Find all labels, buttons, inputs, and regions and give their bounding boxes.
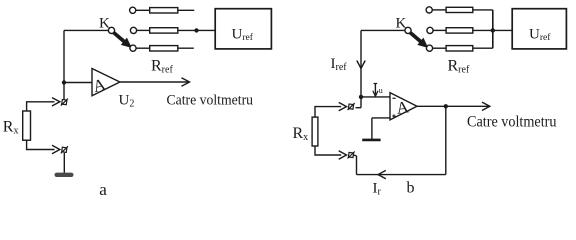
source Uref box (b) [512,9,566,49]
svg-text:A: A [395,97,411,118]
arrowhead top tap (a) [52,98,60,106]
junction dot middle row (a) [194,28,198,32]
op-amp A (b) [390,93,417,120]
arrowhead top tap (b) [339,102,347,110]
wire plus input to ground (b) [371,118,373,139]
junction dot output (b) [444,104,448,108]
feedback wire right vertical (b) [445,106,447,174]
svg-text:K: K [99,16,110,32]
arrowhead Ir current (b) [378,170,386,178]
op-amp U2 (a) [92,69,120,96]
wire resistor-to-bus top (b) [473,9,493,11]
resistor Rx (b) [312,117,318,146]
svg-text:Rx: Rx [293,125,309,143]
ground bar (a) [55,173,74,177]
svg-text:Rref: Rref [151,58,173,76]
tap contact mark bottom (b) [348,152,355,159]
wire junction to top tap (a) [63,83,65,100]
svg-text:a: a [99,180,107,199]
svg-text:Catre voltmetru: Catre voltmetru [467,114,557,131]
svg-text:u: u [379,86,383,95]
arrowhead output (b) [482,102,490,110]
svg-text:U2: U2 [119,93,135,110]
wire to opamp input (a) [64,82,92,84]
svg-text:b: b [407,180,415,197]
wire contact-to-resistor bottom (a) [136,47,150,49]
switch K pole contact (a) [108,27,114,33]
svg-text:Iref: Iref [331,56,348,73]
feedback wire left vertical (b) [356,156,358,175]
tap contact mark bottom (a) [61,146,68,153]
contact node middle (a) [130,27,136,33]
contact node bottom (b) [426,45,432,51]
tap contact mark top (b) [348,103,355,110]
junction dot bus (b) [491,28,495,32]
resistor Rref middle (a) [150,28,178,33]
resistor Rref bottom (b) [446,46,473,51]
wire contact-to-resistor top (a) [136,9,150,11]
resistor Rref top (b) [446,7,473,12]
contact node top (a) [130,7,136,13]
switch K pole contact (b) [405,27,411,33]
resistor Rref top (a) [150,8,178,13]
svg-text:Ir: Ir [373,181,382,198]
svg-text:Catre voltmetru: Catre voltmetru [167,93,254,109]
tap contact mark top (a) [61,99,68,106]
wire opamp plus input (b) [372,117,390,119]
wire bus to Uref (b) [493,29,512,31]
wire stub top (a) [178,9,195,11]
source Uref box (a) [215,9,271,49]
svg-text:Rref: Rref [448,58,470,76]
arrowhead output (a) [182,78,190,86]
arrowhead Iref current (b) [357,61,365,69]
wire pole vertical drop (a) [63,30,65,82]
contact node middle (b) [427,27,433,33]
arrowhead bottom tap (b) [339,151,347,159]
wire opamp output (a) [120,81,189,83]
contact node bottom (a) [130,45,136,51]
switch K arm (b) [410,32,428,48]
resistor Rx (a) [23,111,31,140]
arrowhead bottom tap (a) [52,145,60,153]
wire stub bottom (a) [178,47,194,49]
svg-text:Rx: Rx [3,118,19,136]
op-amp plus sign (b) [392,114,395,117]
switch K arm (a) [113,32,131,48]
Iu current arrow (b) [373,84,378,97]
wire corner to top tap mark (b) [356,107,362,109]
wire junction to opamp minus input (b) [361,96,390,98]
feedback wire bottom (b) [357,174,446,176]
wire contact-to-resistor middle (b) [433,29,446,31]
resistor Rref middle (b) [446,28,473,33]
wire pole feed (a) [64,29,108,31]
svg-text:K: K [396,16,407,32]
junction node opamp input (b) [359,95,363,99]
ground bar (b) [362,139,380,142]
junction node opamp input (a) [62,80,66,84]
contact node top (b) [426,7,432,13]
wire pole feed (b) [361,29,405,31]
resistor Rref bottom (a) [150,46,178,51]
wire middle to Uref (a) [178,29,215,31]
wire Rx top tap (a) [27,102,55,111]
op-amp minus sign (b) [393,97,396,99]
wire pole vertical drop (b) [360,30,362,107]
wire contact-to-resistor top (b) [432,9,446,11]
bus wire vertical (b) [492,10,494,48]
wire Rx bottom tap (b) [315,146,341,155]
wire Rx bottom tap (a) [27,140,55,149]
wire mark to feedback vertical (b) [353,154,357,157]
wire resistor-to-bus middle (b) [473,29,493,31]
wire resistor-to-bus bottom (b) [473,47,493,49]
wire contact-to-resistor bottom (b) [433,47,447,49]
wire opamp output (b) [417,105,489,107]
wire bottom tap to ground (a) [63,153,65,175]
wire Rx top tap (b) [315,107,341,118]
wire contact-to-resistor middle (a) [137,29,150,31]
